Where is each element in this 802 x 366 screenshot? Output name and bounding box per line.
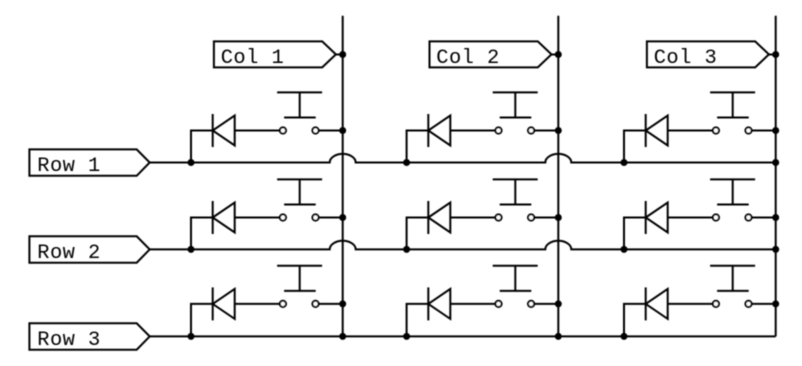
junction riser base row1-col2 — [403, 159, 410, 166]
diode D4 row2-col1 — [213, 201, 235, 234]
pushbutton SW4 row2-col1 — [277, 179, 322, 220]
junction switch-column row1-col1 — [339, 127, 346, 134]
pushbutton SW6 row2-col3 — [710, 179, 755, 220]
wire switch to column row2-col2 — [534, 217, 558, 219]
wire riser row1-col3 — [624, 131, 646, 163]
junction riser base row2-col1 — [188, 246, 195, 253]
wire riser row3-col1 — [191, 304, 213, 337]
pushbutton SW5 row2-col2 — [493, 179, 538, 220]
junction switch-column row2-col1 — [339, 214, 346, 221]
wire riser row3-col3 — [624, 304, 646, 337]
wire diode to switch row3-col3 — [668, 303, 713, 305]
wire riser row3-col2 — [407, 304, 429, 337]
wire diode to switch row1-col3 — [668, 130, 713, 132]
svg-text:Row 3: Row 3 — [37, 329, 100, 352]
junction row 1 end on col 3 — [772, 159, 779, 166]
net label Row 1 — [29, 149, 149, 178]
wire diode to switch row2-col2 — [450, 217, 495, 219]
wire switch to column row1-col2 — [534, 130, 558, 132]
wire riser row2-col1 — [191, 218, 213, 250]
junction riser base row3-col1 — [188, 333, 195, 340]
diode D5 row2-col2 — [428, 201, 450, 234]
pushbutton SW9 row3-col3 — [710, 266, 755, 307]
wire diode to switch row3-col2 — [450, 303, 495, 305]
wire column 2 vertical line — [557, 16, 559, 337]
net label Col 2 — [430, 41, 559, 70]
net label Row 2 — [29, 236, 149, 265]
net label Col 3 — [647, 41, 776, 70]
wire riser row1-col1 — [191, 131, 213, 163]
pushbutton SW3 row1-col3 — [710, 92, 755, 133]
junction riser base row2-col2 — [403, 246, 410, 253]
wire switch to column row1-col3 — [752, 130, 776, 132]
wire diode to switch row2-col3 — [668, 217, 713, 219]
wire diode to switch row3-col1 — [235, 303, 280, 305]
junction riser base row2-col3 — [621, 246, 628, 253]
junction riser base row3-col3 — [621, 333, 628, 340]
wire switch to column row3-col2 — [534, 303, 558, 305]
diode D1 row1-col1 — [213, 114, 235, 147]
wire switch to column row3-col1 — [319, 303, 343, 305]
junction switch-column row3-col1 — [339, 300, 346, 307]
junction col 3 at label — [772, 51, 779, 58]
svg-text:Col 1: Col 1 — [221, 47, 284, 70]
junction switch-column row1-col2 — [555, 127, 562, 134]
junction col 1 at label — [339, 51, 346, 58]
net label Col 1 — [214, 41, 343, 70]
diode D7 row3-col1 — [213, 287, 235, 320]
pushbutton SW1 row1-col1 — [277, 92, 322, 133]
wire riser row2-col2 — [407, 218, 429, 250]
diode D2 row1-col2 — [428, 114, 450, 147]
wire row 3 horizontal line — [150, 335, 776, 337]
svg-text:Col 2: Col 2 — [436, 47, 499, 70]
pushbutton SW2 row1-col2 — [493, 92, 538, 133]
junction switch-column row2-col3 — [772, 214, 779, 221]
diode D6 row2-col3 — [646, 201, 668, 234]
junction col 1 end on row 3 — [339, 333, 346, 340]
junction switch-column row2-col2 — [555, 214, 562, 221]
wire riser row1-col2 — [407, 131, 429, 163]
wire switch to column row3-col3 — [752, 303, 776, 305]
pushbutton SW8 row3-col2 — [493, 266, 538, 307]
net label Row 3 — [29, 323, 149, 352]
junction switch-column row1-col3 — [772, 127, 779, 134]
svg-text:Col 3: Col 3 — [654, 47, 717, 70]
svg-text:Row 1: Row 1 — [37, 155, 100, 178]
wire column 3 vertical line — [775, 16, 777, 337]
wire column 1 vertical line — [342, 16, 344, 337]
wire switch to column row2-col1 — [319, 217, 343, 219]
diode D9 row3-col3 — [646, 287, 668, 320]
wire row 1 horizontal line — [150, 154, 776, 163]
wire riser row2-col3 — [624, 218, 646, 250]
junction col 2 at label — [555, 51, 562, 58]
junction switch-column row3-col2 — [555, 300, 562, 307]
junction col 2 end on row 3 — [555, 333, 562, 340]
wire row 2 horizontal line — [150, 241, 776, 250]
junction riser base row1-col1 — [188, 159, 195, 166]
junction switch-column row3-col3 — [772, 300, 779, 307]
wire diode to switch row1-col1 — [235, 130, 280, 132]
junction riser base row1-col3 — [621, 159, 628, 166]
junction row 2 end on col 3 — [772, 246, 779, 253]
junction riser base row3-col2 — [403, 333, 410, 340]
diode D3 row1-col3 — [646, 114, 668, 147]
pushbutton SW7 row3-col1 — [277, 266, 322, 307]
wire diode to switch row1-col2 — [450, 130, 495, 132]
svg-text:Row 2: Row 2 — [37, 242, 100, 265]
diode D8 row3-col2 — [428, 287, 450, 320]
wire switch to column row2-col3 — [752, 217, 776, 219]
wire switch to column row1-col1 — [319, 130, 343, 132]
wire diode to switch row2-col1 — [235, 217, 280, 219]
